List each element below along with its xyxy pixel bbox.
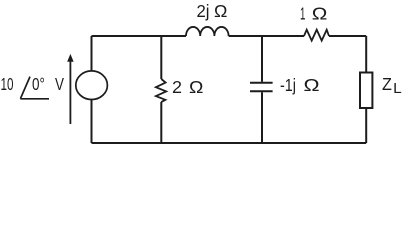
wire left branch lower [91,100,93,144]
svg-text:Ω: Ω [312,3,328,23]
svg-text:Ω: Ω [189,77,203,97]
capacitor value label -1j Ω [280,75,320,95]
resistor R1 2Ω [156,79,166,102]
wire right branch lower [365,108,367,143]
source polarity arrow [68,55,73,124]
wire shunt branch upper [160,36,162,79]
capacitor C1 bottom plate [250,90,273,92]
wire capacitor branch upper [261,36,263,82]
wire shunt branch lower [160,102,162,143]
wire right branch upper [365,36,367,73]
resistor R1 value label 2 Ω [172,77,203,97]
capacitor C1 top plate [250,82,273,84]
source label 10∠0° V [1,74,65,99]
svg-text:2j: 2j [197,1,210,21]
inductor L1 2jΩ [186,27,229,36]
svg-text:1: 1 [300,3,305,23]
voltage source V1 circle [76,71,108,100]
svg-text:-1j: -1j [280,75,296,95]
resistor R2 value label 1 Ω [300,3,327,23]
svg-text:L: L [393,80,402,97]
wire bottom [92,142,367,144]
svg-text:Z: Z [382,74,392,94]
load label ZL [382,74,402,97]
svg-text:V: V [55,74,64,94]
svg-text:Ω: Ω [304,75,320,95]
load ZL box [360,73,372,109]
wire top-middle segment [229,35,304,37]
inductor value label 2j Ω [197,1,228,21]
svg-text:0°: 0° [32,74,45,94]
wire capacitor branch lower [261,92,263,143]
svg-text:10: 10 [1,74,14,94]
resistor R2 1Ω [304,30,329,41]
svg-text:Ω: Ω [214,1,227,21]
wire top-left segment [92,35,187,37]
svg-text:2: 2 [172,77,182,97]
wire left branch upper [91,36,93,71]
wire top-right segment [329,35,366,37]
